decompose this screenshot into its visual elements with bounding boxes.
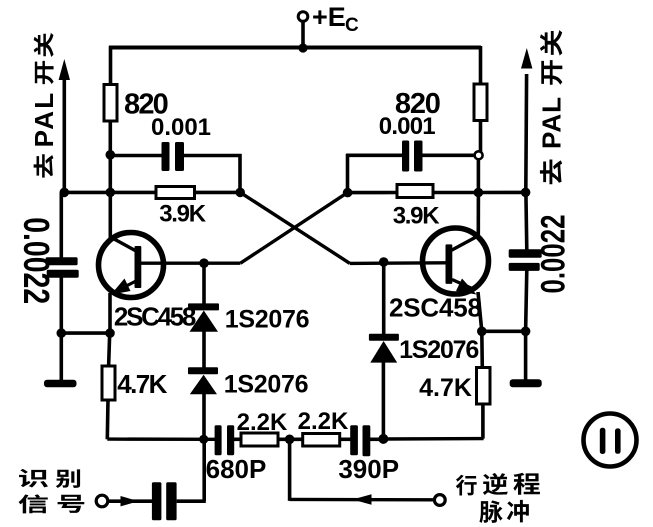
wire Q2 emitter lead [478, 292, 482, 331]
wire C3 bottom lead [59, 277, 63, 333]
wire C1 right lead [184, 154, 242, 158]
arrow right PAL output [521, 48, 532, 69]
svg-text:+E: +E [312, 2, 346, 32]
diode D3 1S2076 (right) [369, 334, 399, 341]
svg-text:0.001: 0.001 [379, 113, 436, 140]
wire D3 top lead [382, 262, 386, 335]
arrow ident input [121, 496, 139, 506]
wire Q2 base lead [350, 261, 446, 265]
arrow left PAL output [59, 59, 70, 80]
resistor R7 2.2K (left) [241, 433, 278, 446]
junction right PAL tap [521, 188, 531, 198]
terminal identification input [96, 495, 108, 507]
resistor R8 2.2K (right) [303, 434, 340, 447]
label left 去PAL开关 [34, 154, 54, 177]
wire R5 bottom lead [106, 400, 110, 440]
wire R6 top lead [480, 331, 484, 368]
capacitor C2 0.001 (right) [402, 141, 409, 172]
wire left PAL output [63, 74, 67, 192]
diode D1 1S2076 (upper left) [188, 303, 219, 310]
ground left [44, 380, 77, 388]
wire cross-coupling diagonal 1 [240, 192, 350, 263]
wire retrace horiz [290, 498, 434, 502]
wire below open circle [477, 160, 481, 194]
wire ident vert [202, 439, 206, 501]
wire C2 right lead [423, 154, 475, 158]
svg-text:2SC458: 2SC458 [114, 302, 196, 332]
wire ident lead 1 [108, 499, 152, 503]
ground right [510, 379, 542, 387]
wire R3 right lead [194, 191, 241, 195]
junction left y192 node [106, 188, 116, 198]
terminal right 0.001 node (open circle) [475, 151, 483, 159]
junction D3 bottom node [378, 434, 388, 444]
svg-text:3.9K: 3.9K [159, 201, 206, 228]
junction left emitter node [57, 328, 67, 338]
wire retrace vert [288, 439, 292, 501]
junction left 0.001 tap [106, 150, 116, 160]
wire C5-R7 lead [234, 437, 243, 441]
wire right emitter link [482, 329, 526, 333]
svg-text:PAL: PAL [29, 91, 59, 148]
svg-text:C: C [345, 15, 359, 36]
wire C3 top lead [59, 192, 63, 258]
wire left ground lead [59, 333, 63, 381]
capacitor C7 ident coupling [152, 482, 162, 520]
resistor R6 4.7K (right) [477, 368, 491, 405]
wire left emitter link [61, 331, 110, 335]
wire left collector rail [109, 120, 113, 239]
wire Q1 emitter lead [108, 293, 112, 333]
wire R4 right lead [433, 191, 479, 195]
wire cross-coupling diagonal 2 [240, 193, 347, 264]
svg-text:3.9K: 3.9K [393, 203, 440, 230]
wire left PAL tap [63, 191, 111, 195]
resistor R4 3.9K (right) [397, 185, 433, 198]
wire C4 top lead [524, 192, 528, 250]
junction R3/C1 node [235, 188, 245, 198]
svg-text:2SC458: 2SC458 [389, 292, 482, 322]
wire Q1 base lead [141, 262, 240, 265]
svg-text:4.7K: 4.7K [419, 374, 472, 402]
wire R7-R8 link [278, 437, 304, 441]
label right 去PAL开关 [540, 160, 562, 185]
junction retrace node [285, 435, 295, 445]
wire R8-C6 lead [340, 437, 352, 441]
svg-text:2.2K: 2.2K [298, 408, 349, 435]
wire right y192 link [478, 191, 526, 195]
junction bottom left node [199, 435, 208, 444]
wire C1 corner down [238, 154, 242, 193]
svg-text:1S2076: 1S2076 [224, 370, 308, 398]
wire D2 bottom lead [202, 394, 206, 441]
resistor R2 820 (right) [474, 84, 487, 121]
capacitor C1 0.001 (left) [162, 142, 170, 171]
wire bottom rail right [383, 437, 483, 441]
junction right 3.9K left node [343, 188, 353, 198]
junction right collector node [474, 188, 484, 198]
wire D1 top lead [202, 263, 206, 305]
wire D1-D2 link [202, 331, 206, 369]
wire R5 top lead [109, 333, 110, 366]
capacitor C4 0.0022 (right) [509, 249, 542, 258]
wire top supply rail [109, 45, 481, 49]
svg-text:1S2076: 1S2076 [399, 336, 478, 364]
resistor R5 4.7K (left) [102, 366, 115, 400]
wire D3 bottom lead [382, 361, 386, 439]
wire left 820 top lead [109, 46, 113, 85]
transistor Q1 2SC458 (left) [99, 233, 164, 298]
svg-text:390P: 390P [338, 454, 399, 484]
wire R6 bottom lead [481, 403, 485, 439]
capacitor C3 0.0022 (left) [46, 257, 78, 265]
svg-text:2.2K: 2.2K [237, 409, 288, 436]
wire C2 left lead [346, 154, 402, 158]
terminal retrace input [434, 495, 445, 506]
svg-text:4.7K: 4.7K [117, 369, 167, 399]
svg-text:0.001: 0.001 [151, 114, 211, 141]
wire ident lead 2 [177, 499, 206, 503]
figure number circle 11 [584, 414, 637, 467]
svg-text:1S2076: 1S2076 [225, 305, 309, 333]
capacitor C6 390P [350, 425, 358, 455]
diode D2 1S2076 (lower left) [188, 367, 218, 374]
label 行逆程脉冲 [456, 475, 477, 496]
wire right 820 bottom lead [479, 120, 483, 152]
wire right PAL output [524, 74, 528, 192]
svg-text:680P: 680P [206, 454, 267, 484]
svg-text:0.0022: 0.0022 [535, 214, 572, 293]
wire C6-junction lead [370, 437, 384, 441]
capacitor C5 680P [215, 425, 222, 455]
wire R3 left lead [110, 191, 157, 195]
wire C4 bottom lead [526, 270, 527, 331]
wire left 0.001 lead [110, 154, 161, 158]
resistor R3 3.9K (left) [156, 187, 195, 199]
wire bottom rail left [107, 437, 215, 441]
wire R4 left lead [348, 191, 399, 195]
wire right ground lead [524, 331, 528, 380]
svg-text:0.0022: 0.0022 [16, 217, 56, 304]
transistor Q2 2SC458 (right) [423, 228, 489, 294]
arrow retrace input [353, 494, 372, 504]
wire right 820 top lead [479, 46, 483, 85]
svg-text:PAL: PAL [536, 96, 566, 149]
wire C2 corner down [346, 154, 350, 193]
junction right emitter node [477, 327, 487, 337]
power terminal +Ec [298, 12, 308, 22]
resistor R1 820 (left) [104, 85, 117, 122]
junction Q2 base / diode node [379, 257, 389, 267]
junction top rail / +Ec [298, 43, 307, 52]
wire Q2 collector vert [476, 193, 480, 235]
junction Q1 base / diode node [199, 258, 209, 268]
label 识别信号 [19, 469, 48, 488]
